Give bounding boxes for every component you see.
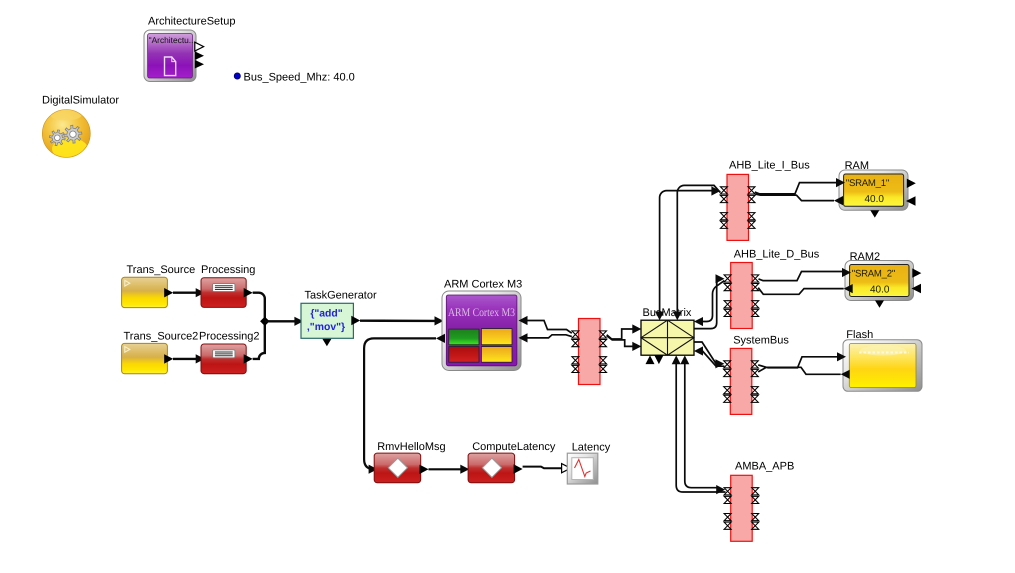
port Processing out — [244, 288, 253, 297]
wire AHB_Lite_I_Bus to RAM — [755, 183, 837, 194]
svg-text:40.0: 40.0 — [870, 284, 890, 295]
wire BusMatrix to AHB_Lite_D_Bus — [694, 279, 722, 329]
svg-text:,"mov"}: ,"mov"} — [307, 322, 345, 333]
block BusMatrix — [641, 320, 694, 355]
port RAM2 bottom — [875, 300, 884, 307]
wire BusMatrix to AHB_Lite_I_Bus (up) — [660, 191, 715, 313]
svg-text:Bus_Speed_Mhz: 40.0: Bus_Speed_Mhz: 40.0 — [244, 71, 355, 83]
queue ports left — [572, 331, 579, 338]
svg-text:Trans_Source: Trans_Source — [127, 264, 196, 276]
port ComputeLatency out — [514, 464, 523, 473]
wire AHB_Lite_D_Bus to RAM2 — [759, 272, 844, 281]
wire AHB_Lite_D_Bus return — [703, 281, 724, 322]
svg-text:ARM Cortex M3: ARM Cortex M3 — [444, 279, 522, 291]
block AHB_Lite_D_Bus — [731, 263, 753, 329]
svg-text:Flash: Flash — [846, 329, 873, 341]
parameter Bus_Speed_Mhz — [234, 71, 355, 83]
wire ARM to queue port1 upper — [528, 321, 572, 334]
svg-text:"Architectu...: "Architectu... — [149, 35, 196, 45]
block Latency — [567, 453, 598, 484]
svg-text:RmvHelloMsg: RmvHelloMsg — [377, 441, 445, 453]
wire queue to BusMatrix upper — [607, 329, 637, 339]
wire junction to TaskGenerator — [265, 320, 296, 322]
port RAM2 right out — [912, 268, 921, 277]
block AHB_Lite_I_Bus — [727, 174, 749, 240]
port TaskGenerator out — [351, 316, 360, 325]
port Processing2 out — [244, 354, 253, 363]
port ARM right 2 — [519, 333, 528, 342]
svg-text:Processing2: Processing2 — [199, 330, 260, 342]
wire TaskGenerator to ARM — [360, 320, 435, 323]
block Trans_Source2 — [122, 343, 168, 373]
svg-text:Processing: Processing — [201, 264, 255, 276]
svg-text:AMBA_APB: AMBA_APB — [735, 460, 794, 472]
svg-text:Latency: Latency — [572, 441, 611, 453]
port RAM bottom — [870, 210, 879, 217]
wire ARM to RmvHelloMsg — [364, 338, 436, 469]
block RAM — [839, 170, 908, 210]
block ARM Cortex M3 — [442, 291, 521, 371]
port Trans_Source out — [164, 288, 173, 297]
block AMBA_APB — [731, 475, 753, 541]
wire Trans_Source to Processing — [173, 292, 197, 294]
wire RmvHelloMsg to ComputeLatency — [429, 468, 462, 470]
port BusMatrix bottom unconnected up — [646, 355, 655, 364]
svg-text:TaskGenerator: TaskGenerator — [305, 290, 377, 302]
wire Trans_Source2 to Processing2 — [173, 358, 197, 360]
queue ports right — [600, 331, 607, 338]
port RAM2 right in — [912, 284, 922, 293]
wire ComputeLatency to Latency — [523, 467, 562, 469]
wire ARM to queue port1 lower — [528, 335, 572, 338]
svg-text:BusMatrix: BusMatrix — [643, 307, 692, 319]
port RAM right in — [906, 196, 916, 205]
svg-text:Trans_Source2: Trans_Source2 — [124, 330, 199, 342]
block ArchitectureSetup — [144, 30, 196, 82]
wire SystemBus return — [702, 351, 724, 366]
block Flash — [843, 340, 922, 392]
block RmvHelloMsg — [374, 453, 421, 483]
svg-text:AHB_Lite_D_Bus: AHB_Lite_D_Bus — [734, 249, 820, 261]
port Trans_Source2 out — [164, 354, 173, 363]
block TaskGenerator — [301, 303, 353, 338]
port ARM left lower (to RmvHelloMsg) — [436, 334, 445, 343]
wire queue to BusMatrix lower — [607, 336, 637, 347]
wire Processing outputs merge — [253, 293, 265, 359]
svg-text:"SRAM_1": "SRAM_1" — [846, 178, 889, 189]
svg-text:AHB_Lite_I_Bus: AHB_Lite_I_Bus — [729, 159, 810, 171]
wire Flash return to SystemBus — [758, 367, 841, 374]
junction node — [260, 317, 269, 326]
svg-text:RAM: RAM — [845, 160, 869, 172]
port ArchitectureSetup out 1 (hollow) — [195, 42, 204, 51]
wire RAM return to AHB_Lite_I_Bus — [755, 194, 834, 201]
svg-text:RAM2: RAM2 — [850, 251, 881, 263]
wire AHB_Lite_I_Bus return (down) — [677, 185, 720, 313]
block DigitalSimulator — [42, 109, 90, 161]
svg-text:ARM Cortex M3: ARM Cortex M3 — [448, 306, 515, 319]
port ArchitectureSetup out 3 — [195, 60, 204, 69]
wire BusMatrix to SystemBus — [694, 342, 717, 364]
svg-text:SystemBus: SystemBus — [733, 335, 789, 347]
block SystemBus — [730, 348, 752, 414]
block Processing — [201, 278, 246, 308]
svg-text:"SRAM_2": "SRAM_2" — [852, 269, 895, 280]
svg-text:{"add": {"add" — [310, 309, 342, 320]
block queue (channel between ARM and BusMatrix) — [579, 319, 601, 385]
port RmvHelloMsg out — [420, 465, 429, 474]
port ARM right 1 — [519, 316, 528, 325]
svg-text:ComputeLatency: ComputeLatency — [472, 441, 556, 453]
svg-text:40.0: 40.0 — [865, 194, 885, 205]
port TaskGenerator bottom — [322, 339, 331, 346]
wire SystemBus to Flash — [758, 357, 838, 368]
wire BusMatrix to AMBA_APB (down) — [685, 362, 717, 488]
wire RAM2 return to AHB_Lite_D_Bus — [758, 288, 844, 295]
port BusMatrix bottom unconnected down — [654, 355, 663, 364]
wire AMBA_APB return (up) — [676, 362, 725, 492]
port ArchitectureSetup out 2 — [195, 51, 204, 60]
block Processing2 — [201, 344, 246, 374]
block Trans_Source — [122, 277, 168, 307]
svg-text:DigitalSimulator: DigitalSimulator — [42, 95, 119, 107]
block RAM2 — [845, 261, 914, 301]
port RAM right out — [907, 179, 916, 188]
block ComputeLatency — [468, 453, 514, 483]
svg-text:ArchitectureSetup: ArchitectureSetup — [148, 16, 235, 28]
